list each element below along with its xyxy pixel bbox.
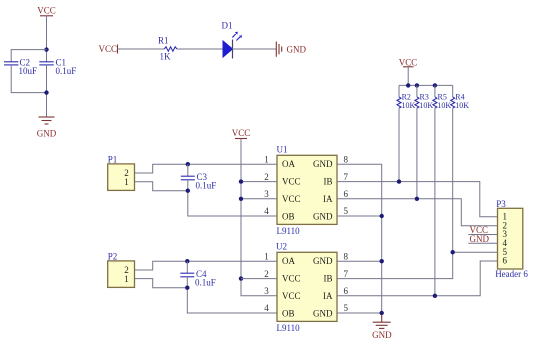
svg-text:D1: D1 (222, 21, 233, 31)
wire U1 pin5 GND stub (337, 215, 382, 217)
ground symbol (below caps) (37, 117, 57, 139)
wire U2 pin5 GND stub (337, 312, 382, 314)
wire pull-up top bus (399, 84, 453, 86)
svg-text:0.1uF: 0.1uF (196, 180, 217, 190)
resistor R2 10K (397, 85, 416, 109)
svg-text:GND: GND (37, 129, 57, 139)
wire P3 pin3 VCC stub (468, 234, 497, 236)
svg-text:0.1uF: 0.1uF (56, 66, 77, 76)
svg-text:VCC: VCC (282, 194, 301, 204)
wire P1 pin2 to U1 OA rail (135, 164, 278, 173)
ground symbol (LED, sideways) (276, 42, 306, 57)
svg-text:R1: R1 (158, 36, 169, 46)
svg-text:10uF: 10uF (19, 66, 38, 76)
svg-text:GND: GND (470, 234, 490, 244)
op-amp U1 L9110 (264, 145, 348, 236)
capacitor C1 (39, 58, 76, 76)
svg-text:VCC: VCC (399, 58, 418, 68)
svg-text:4: 4 (264, 206, 269, 216)
power VCC symbol (middle, for U1/U2) (232, 128, 251, 139)
wire R4 to U2 IB net (452, 108, 454, 252)
resistor R5 10K (433, 85, 452, 109)
svg-text:GND: GND (287, 45, 307, 55)
svg-text:1: 1 (124, 177, 129, 187)
node VCC at U2 pin2 (239, 276, 243, 280)
LED D1 (222, 21, 243, 59)
ground symbol (bottom) (372, 315, 392, 341)
wire top rail to C2 branch (11, 50, 46, 62)
svg-text:10K: 10K (419, 101, 433, 110)
svg-text:L9110: L9110 (277, 323, 301, 333)
wire C2 bottom lead to bottom rail (11, 65, 46, 93)
wire U1 pin2 VCC stub (241, 181, 277, 183)
svg-text:OB: OB (282, 212, 295, 222)
wire P2 pin2 to U2 OA rail (135, 261, 278, 270)
wire P3 pin4 GND stub (468, 242, 497, 244)
op-amp U2 L9110 (264, 242, 348, 333)
node VCC at U1 pin3 (239, 197, 243, 201)
wire U2 IA to P3 pin6 (337, 261, 498, 296)
svg-text:GND: GND (313, 256, 333, 266)
svg-text:IB: IB (324, 177, 333, 187)
svg-text:P1: P1 (108, 154, 118, 164)
svg-text:VCC: VCC (282, 291, 301, 301)
wire R1 to D1 (180, 48, 223, 50)
wire VCC vertical bus to U1/U2 VCC pins (241, 139, 277, 296)
resistor R3 10K (415, 85, 434, 109)
svg-text:VCC: VCC (282, 274, 301, 284)
svg-text:GND: GND (313, 309, 333, 319)
svg-text:7: 7 (344, 269, 349, 279)
resistor R1 1K (155, 36, 180, 62)
svg-text:8: 8 (344, 251, 349, 261)
node C3 top junction (186, 162, 190, 166)
resistor R4 10K (451, 85, 470, 109)
connector P1 (108, 154, 135, 190)
connector P2 (108, 251, 135, 287)
svg-text:VCC: VCC (232, 128, 251, 138)
wire U1 pin3 VCC stub (241, 198, 277, 200)
svg-text:GND: GND (313, 212, 333, 222)
svg-text:5: 5 (344, 303, 349, 313)
wire VCC vertical to cap rail (46, 16, 48, 62)
wire P2 pin1 to U2 OB (135, 279, 278, 313)
capacitor C3 (181, 164, 216, 191)
node R4/U2-IB junction (451, 250, 455, 254)
svg-text:8: 8 (344, 154, 349, 164)
connector P3 Header 6 (495, 199, 528, 279)
node VCC at U1 pin2 (239, 179, 243, 183)
node C4 bottom junction (185, 286, 189, 290)
svg-text:IA: IA (323, 291, 333, 301)
svg-text:IA: IA (323, 194, 333, 204)
node bus/R5 junction (433, 83, 437, 87)
svg-text:2: 2 (264, 172, 269, 182)
capacitor C2 (4, 58, 37, 76)
svg-text:6: 6 (503, 256, 508, 266)
svg-text:3: 3 (264, 286, 269, 296)
node cap top junction (44, 47, 48, 51)
svg-text:L9110: L9110 (277, 226, 301, 236)
power VCC symbol (pull-up bank) (399, 58, 418, 68)
wire GND bus vertical (U1/U2 GND pins) (337, 164, 382, 314)
svg-text:0.1uF: 0.1uF (195, 277, 216, 287)
wire R3 to IA net (416, 108, 418, 199)
node cap bottom junction (44, 90, 48, 94)
svg-text:6: 6 (344, 286, 349, 296)
svg-text:P3: P3 (496, 199, 506, 209)
svg-text:1: 1 (124, 274, 129, 284)
svg-text:GND: GND (372, 330, 392, 340)
wire U1 IA to P3 pin2 (337, 199, 498, 226)
wire R2 to IB net (398, 108, 400, 181)
node R2/IB junction (397, 179, 401, 183)
svg-text:VCC: VCC (37, 6, 56, 16)
wire P1 pin1 to U1 OB (135, 182, 278, 216)
svg-text:P2: P2 (108, 251, 118, 261)
svg-text:2: 2 (264, 269, 269, 279)
svg-text:U2: U2 (276, 242, 287, 252)
svg-text:GND: GND (313, 159, 333, 169)
wire D1 to ground (233, 48, 277, 50)
node bus/VCC junction (406, 83, 410, 87)
wire VCC stem to bus (407, 67, 409, 86)
svg-text:6: 6 (344, 189, 349, 199)
wire U1 IB to P3 pin1 (337, 182, 498, 217)
svg-text:1: 1 (264, 251, 269, 261)
node bus/R3 junction (415, 83, 419, 87)
svg-text:10K: 10K (402, 101, 416, 110)
svg-text:U1: U1 (277, 145, 288, 155)
power VCC port (LED circuit) (99, 44, 118, 54)
wire U2 pin2 VCC stub (241, 278, 277, 280)
node R3/IA junction (415, 197, 419, 201)
svg-text:OA: OA (282, 159, 295, 169)
node GND at U1 pin5 (380, 214, 384, 218)
node C3 bottom junction (186, 189, 190, 193)
wire VCC to R1 (118, 48, 156, 50)
power VCC symbol (top-left) (37, 6, 56, 16)
svg-text:4: 4 (264, 303, 269, 313)
svg-text:1: 1 (264, 154, 269, 164)
wire R5 to U2 IA net (434, 108, 436, 296)
svg-text:VCC: VCC (99, 44, 118, 54)
svg-text:OB: OB (282, 309, 295, 319)
node C4 top junction (185, 259, 189, 263)
svg-text:10K: 10K (455, 101, 469, 110)
node R5/U2-IA junction (433, 294, 437, 298)
capacitor C4 (180, 261, 215, 288)
svg-text:1K: 1K (160, 52, 172, 62)
svg-text:OA: OA (282, 256, 295, 266)
svg-text:VCC: VCC (282, 177, 301, 187)
svg-text:7: 7 (344, 172, 349, 182)
svg-text:Header 6: Header 6 (495, 269, 528, 279)
svg-text:5: 5 (344, 206, 349, 216)
node GND at U2 pin5 (380, 311, 384, 315)
svg-text:IB: IB (324, 274, 333, 284)
wire U2 pin8 GND stub (337, 260, 382, 262)
svg-text:3: 3 (264, 189, 269, 199)
wire U2 IB to P3 pin5 (337, 252, 498, 278)
svg-text:10K: 10K (437, 101, 451, 110)
wire C1 bottom lead (46, 65, 48, 117)
node GND at U2 pin8 (380, 259, 384, 263)
